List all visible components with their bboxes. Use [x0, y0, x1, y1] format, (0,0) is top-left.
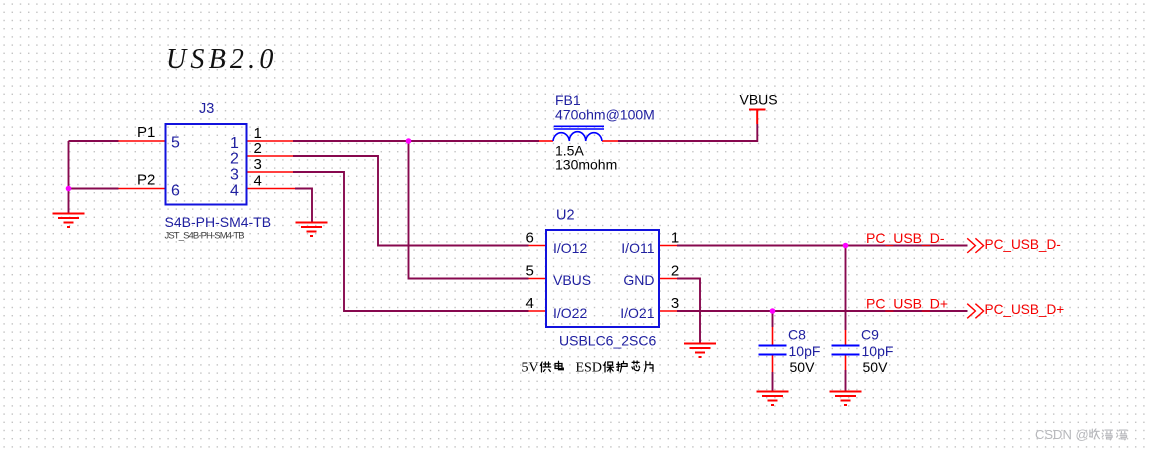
svg-text:5: 5 [171, 135, 180, 152]
svg-text:VBUS: VBUS [553, 272, 591, 288]
svg-text:PC_USB_D-: PC_USB_D- [866, 230, 945, 246]
svg-text:I/O21: I/O21 [620, 305, 654, 321]
svg-text:6: 6 [526, 229, 534, 246]
svg-text:3: 3 [671, 295, 679, 312]
svg-text:10pF: 10pF [862, 343, 894, 359]
svg-text:P1: P1 [137, 124, 155, 141]
svg-text:6: 6 [171, 183, 180, 200]
svg-text:470ohm@100M: 470ohm@100M [555, 107, 655, 123]
svg-text:PC_USB_D+: PC_USB_D+ [866, 296, 948, 312]
svg-text:4: 4 [526, 295, 534, 312]
svg-text:10pF: 10pF [789, 343, 821, 359]
svg-text:2: 2 [254, 140, 262, 157]
svg-text:S4B-PH-SM4-TB: S4B-PH-SM4-TB [165, 214, 272, 230]
svg-text:5V: 5V [522, 361, 539, 376]
svg-text:4: 4 [230, 183, 239, 200]
svg-text:3: 3 [254, 156, 262, 173]
svg-text:USBLC6_2SC6: USBLC6_2SC6 [559, 333, 656, 349]
svg-text:50V: 50V [790, 359, 816, 375]
svg-text:I/O22: I/O22 [553, 305, 587, 321]
svg-text:VBUS: VBUS [740, 91, 778, 107]
svg-text:2: 2 [230, 151, 239, 168]
svg-text:ESD: ESD [576, 361, 602, 376]
svg-text:3: 3 [230, 167, 239, 184]
svg-text:CSDN @: CSDN @ [1035, 427, 1089, 442]
svg-text:GND: GND [623, 272, 654, 288]
svg-text:I/O11: I/O11 [621, 240, 654, 256]
svg-text:PC_USB_D+: PC_USB_D+ [985, 302, 1065, 317]
svg-text:PC_USB_D-: PC_USB_D- [985, 237, 1061, 252]
svg-text:C9: C9 [861, 327, 879, 343]
svg-text:C8: C8 [788, 327, 806, 343]
svg-text:1: 1 [671, 229, 679, 246]
svg-text:130mohm: 130mohm [555, 156, 617, 172]
svg-text:JST_S4B-PH-SM4-TB: JST_S4B-PH-SM4-TB [165, 230, 245, 241]
svg-text:USB2.0: USB2.0 [166, 44, 278, 75]
svg-text:P2: P2 [137, 172, 155, 189]
svg-text:J3: J3 [199, 101, 214, 117]
svg-text:U2: U2 [556, 208, 575, 224]
svg-text:I/O12: I/O12 [553, 240, 587, 256]
svg-text:50V: 50V [863, 359, 889, 375]
svg-text:4: 4 [254, 172, 262, 189]
svg-text:5: 5 [526, 262, 534, 279]
svg-text:2: 2 [671, 262, 679, 279]
svg-text:1: 1 [230, 135, 239, 152]
